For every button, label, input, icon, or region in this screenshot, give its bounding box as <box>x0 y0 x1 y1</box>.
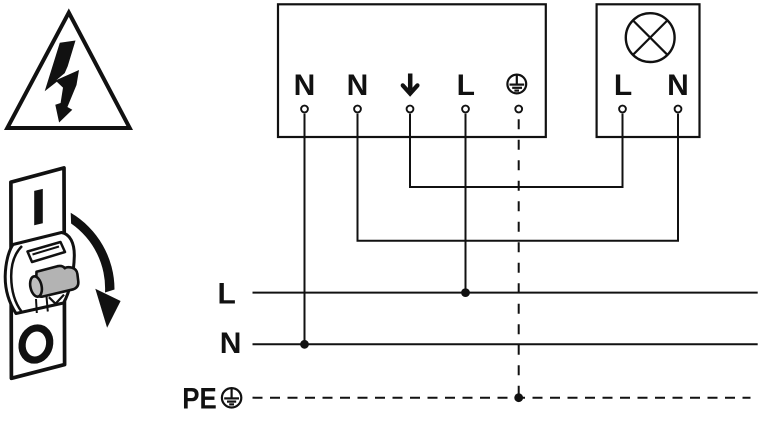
svg-text:N: N <box>294 69 316 102</box>
svg-text:N: N <box>220 327 242 360</box>
svg-text:N: N <box>347 69 369 102</box>
svg-text:L: L <box>218 277 236 310</box>
svg-text:L: L <box>457 69 475 102</box>
svg-text:L: L <box>614 69 632 102</box>
svg-text:N: N <box>667 69 689 102</box>
svg-text:PE: PE <box>182 383 217 416</box>
